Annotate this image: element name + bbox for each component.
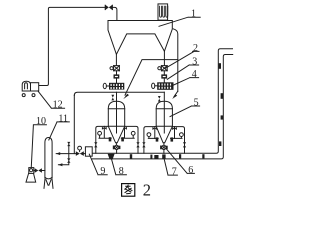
svg-text:6: 6 (188, 165, 193, 176)
svg-text:10: 10 (36, 116, 46, 127)
svg-text:8: 8 (119, 166, 124, 177)
svg-text:2: 2 (193, 43, 198, 54)
svg-text:3: 3 (192, 56, 197, 67)
svg-text:12: 12 (53, 100, 63, 111)
svg-text:5: 5 (194, 97, 199, 108)
svg-text:11: 11 (58, 113, 68, 124)
svg-text:7: 7 (172, 167, 177, 178)
svg-text:2: 2 (143, 180, 151, 199)
svg-text:4: 4 (192, 69, 197, 80)
svg-text:9: 9 (100, 166, 105, 177)
svg-text:1: 1 (191, 9, 196, 20)
